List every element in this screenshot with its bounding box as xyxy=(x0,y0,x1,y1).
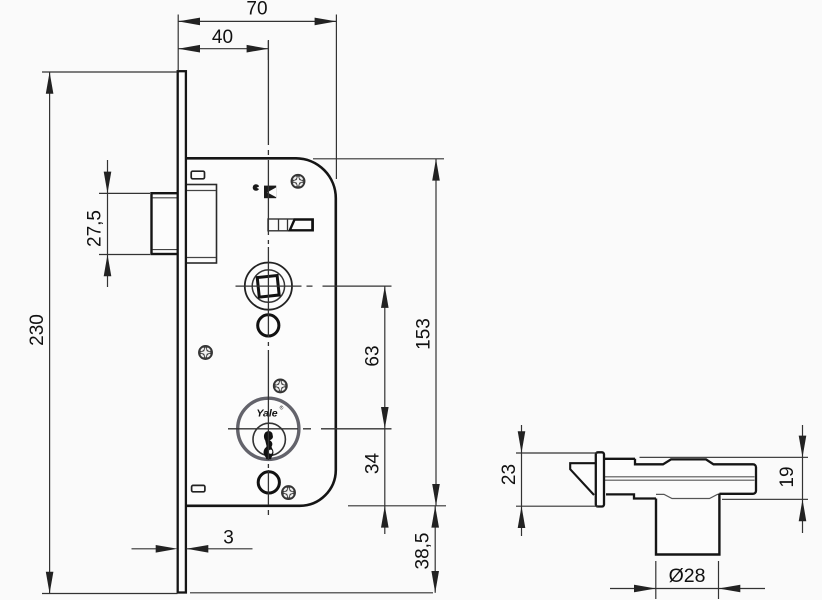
cylinder outer ring xyxy=(238,398,299,459)
screw above cylinder xyxy=(274,379,287,392)
cylinder tube xyxy=(656,494,719,555)
vertical centerline xyxy=(267,40,269,520)
svg-text:3: 3 xyxy=(223,528,234,549)
latch bolt head (protruding) xyxy=(152,193,179,254)
hole below cylinder xyxy=(258,472,279,493)
square stop block xyxy=(264,186,276,199)
svg-text:40: 40 xyxy=(212,27,233,48)
faceplate (front strip) xyxy=(178,71,186,592)
screw bottom-right xyxy=(282,486,295,499)
cylinder horizontal centerline xyxy=(228,428,392,430)
svg-text:Ø28: Ø28 xyxy=(669,565,706,587)
svg-text:Yale: Yale xyxy=(256,408,277,420)
top fixing slot xyxy=(191,171,204,179)
cylinder plug circle xyxy=(253,423,285,455)
dim Ø28 xyxy=(610,561,765,599)
dim 34 xyxy=(381,506,389,528)
svg-text:34: 34 xyxy=(362,453,383,475)
envelope line bottom (19 ref) xyxy=(722,498,808,500)
dim 230 xyxy=(42,72,178,594)
latch body bottom edge xyxy=(606,494,656,498)
envelope line top (19 ref) xyxy=(640,456,809,458)
case top profile xyxy=(635,459,756,494)
svg-text:23: 23 xyxy=(499,464,520,485)
dim 40 xyxy=(178,41,268,60)
spindle square hole xyxy=(257,276,279,298)
spindle follower outer circle xyxy=(245,263,292,310)
dim 27,5 xyxy=(99,160,150,287)
dim 3 xyxy=(132,548,253,550)
pawl / lever xyxy=(268,219,313,231)
faceplate bar (side view) xyxy=(596,452,604,506)
svg-text:27,5: 27,5 xyxy=(85,210,106,247)
dim 63 xyxy=(384,286,386,534)
white fills for side view body xyxy=(604,459,756,555)
bottom fixing slot xyxy=(192,485,205,491)
dim 38,5 xyxy=(190,506,435,593)
screw mid-left xyxy=(199,346,212,359)
lock case body xyxy=(186,158,336,506)
svg-text:70: 70 xyxy=(246,0,267,20)
dim 70 xyxy=(178,15,336,180)
spindle follower inner circle xyxy=(252,270,284,302)
case mid seam lines xyxy=(604,476,755,478)
screw top-right xyxy=(291,175,304,188)
cylinder hump seen through (bottom trapezoid) xyxy=(656,494,719,498)
dim 23 xyxy=(516,425,598,536)
svg-text:19: 19 xyxy=(777,466,798,487)
svg-text:®: ® xyxy=(280,405,284,412)
svg-text:230: 230 xyxy=(27,314,48,346)
hole below spindle xyxy=(258,315,279,336)
keyhole silhouette xyxy=(264,431,274,459)
svg-text:38,5: 38,5 xyxy=(413,533,434,570)
small pin xyxy=(253,184,260,191)
svg-text:153: 153 xyxy=(414,318,435,350)
spindle horizontal centerline xyxy=(236,285,392,287)
dim 153 xyxy=(313,159,446,506)
latch bolt bevel (side view) xyxy=(570,463,596,495)
dim 19 xyxy=(802,425,804,533)
latch body top edge xyxy=(604,458,635,460)
svg-text:63: 63 xyxy=(362,345,383,366)
latch bolt body (inside case) xyxy=(186,185,217,264)
